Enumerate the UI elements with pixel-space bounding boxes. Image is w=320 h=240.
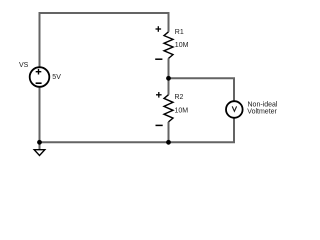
svg-text:Voltmeter: Voltmeter <box>247 108 277 115</box>
voltage source plus sign <box>36 69 42 75</box>
R1 plus sign <box>156 26 162 32</box>
wire R1 bottom to mid node <box>168 58 170 78</box>
wire VS bottom to ground node <box>39 87 41 142</box>
svg-text:5V: 5V <box>52 74 61 81</box>
resistor R2 zigzag <box>164 95 173 122</box>
wire top-left loop (VS top to R1 top) <box>40 13 169 67</box>
wire mid node to R2 top <box>168 78 170 94</box>
voltmeter circle <box>226 101 243 118</box>
wire bottom (ground node to voltmeter bottom) <box>40 118 235 142</box>
svg-text:R1: R1 <box>175 29 184 36</box>
voltage source VS circle <box>30 67 50 87</box>
svg-text:VS: VS <box>19 62 29 69</box>
R2 plus sign <box>156 92 162 98</box>
svg-text:10M: 10M <box>175 108 189 115</box>
svg-text:Non-ideal: Non-ideal <box>248 101 278 108</box>
wire mid node to voltmeter top <box>169 78 235 101</box>
ground symbol <box>34 150 45 156</box>
wire ground stub <box>39 142 41 149</box>
wire R2 bottom to bottom node <box>168 122 170 142</box>
voltmeter V letter <box>232 106 236 111</box>
node bottom junction dot <box>166 140 171 145</box>
svg-text:10M: 10M <box>175 42 189 49</box>
resistor R1 zigzag <box>164 32 173 59</box>
voltage source minus sign <box>36 82 42 84</box>
R2 minus sign <box>156 124 163 126</box>
svg-text:R2: R2 <box>175 94 184 101</box>
R1 minus sign <box>155 58 162 60</box>
node ground junction dot <box>37 140 42 145</box>
node mid junction dot <box>166 76 171 81</box>
